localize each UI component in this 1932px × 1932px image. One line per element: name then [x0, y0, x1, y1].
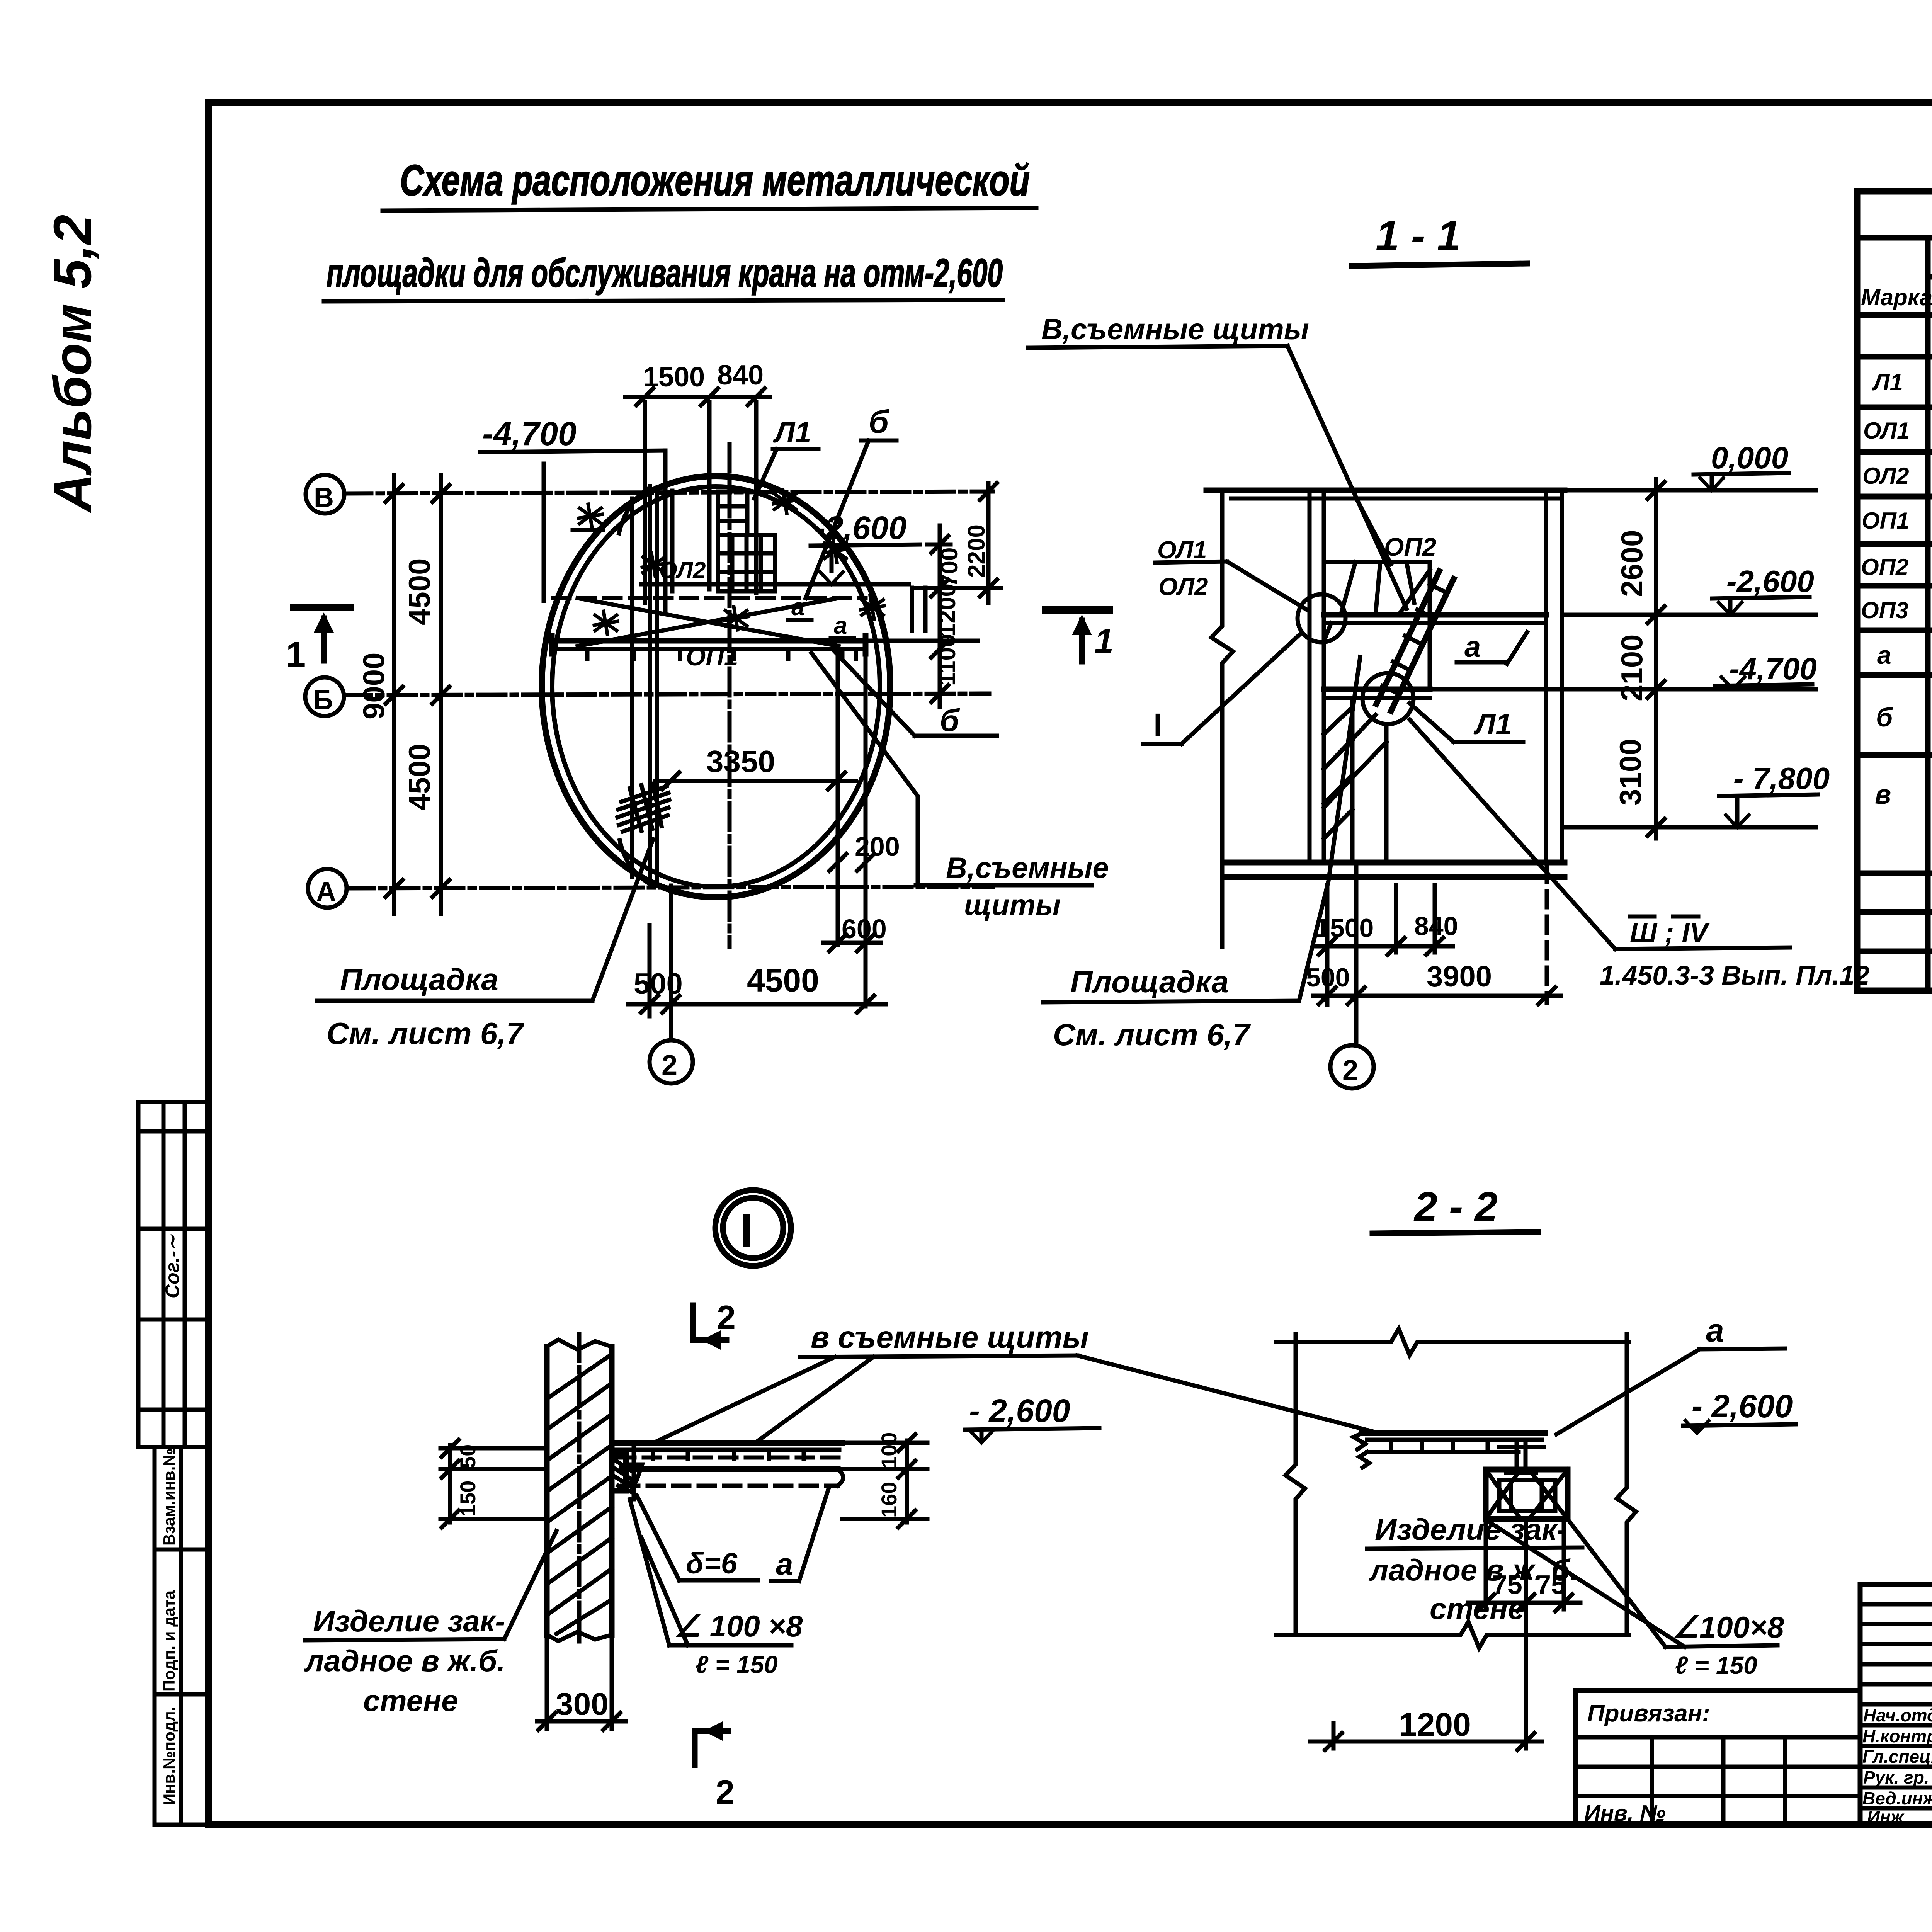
left dims 50/150	[440, 1445, 547, 1522]
platform right box	[910, 588, 914, 631]
svg-text:1500: 1500	[1315, 913, 1374, 943]
bottom slab	[1226, 860, 1565, 866]
title underline 2	[324, 300, 1003, 301]
inner wall vertical (plan)	[630, 498, 634, 877]
header bottom line	[1857, 312, 1932, 318]
svg-text:-2,600: -2,600	[1726, 564, 1814, 599]
svg-text:Подп. и дата: Подп. и дата	[160, 1590, 178, 1692]
svg-text:2: 2	[1342, 1054, 1358, 1086]
svg-text:Нач.отд: Нач.отд	[1863, 1705, 1932, 1725]
svg-text:а: а	[1464, 631, 1481, 663]
axis line Б	[344, 694, 989, 695]
deck bolts (2-2)	[1391, 1440, 1488, 1448]
svg-text:ОП3: ОП3	[1861, 597, 1908, 623]
svg-text:В,съемные щиты: В,съемные щиты	[1041, 313, 1309, 346]
svg-text:ладное в ж.б.: ладное в ж.б.	[304, 1644, 505, 1678]
hatch blob lower	[617, 784, 669, 832]
svg-text:ℓ = 150: ℓ = 150	[696, 1651, 778, 1679]
signature table	[1860, 1584, 1932, 1825]
axis circle А	[308, 869, 347, 908]
dim 3350	[655, 779, 856, 783]
svg-text:Инж: Инж	[1867, 1807, 1905, 1827]
svg-text:в: в	[1875, 779, 1891, 810]
svg-text:См. лист 6,7: См. лист 6,7	[327, 1016, 525, 1051]
axis line В	[344, 492, 993, 493]
svg-text:ℓ = 150: ℓ = 150	[1675, 1651, 1757, 1679]
svg-text:А: А	[316, 876, 336, 907]
platform main beam ОП1 double line	[552, 638, 866, 644]
svg-text:стене: стене	[1430, 1592, 1525, 1626]
ladder Л1 diagonal	[1376, 571, 1439, 704]
svg-text:2600: 2600	[1615, 530, 1649, 597]
section mark 1 (between plan and sec11)	[1046, 606, 1109, 614]
svg-text:Н.контр.: Н.контр.	[1862, 1726, 1932, 1746]
section mark 1 left	[294, 604, 350, 611]
bolts under beam	[587, 649, 856, 659]
svg-text:2100: 2100	[1615, 634, 1649, 701]
svg-text:- 7,800: - 7,800	[1733, 761, 1830, 796]
svg-text:Л1: Л1	[1473, 708, 1512, 741]
detail I badge double circle	[715, 1190, 791, 1266]
svg-text:∠100×8: ∠100×8	[1672, 1610, 1784, 1644]
svg-text:1: 1	[1094, 622, 1114, 661]
svg-text:а: а	[1706, 1312, 1724, 1349]
axis circle 2 (plan)	[650, 1040, 693, 1083]
svg-text:4500: 4500	[402, 743, 436, 811]
svg-text:Площадка: Площадка	[340, 962, 498, 997]
table title underline	[1857, 235, 1932, 241]
element list table outer	[1857, 191, 1932, 991]
svg-text:- 2,600: - 2,600	[1692, 1388, 1793, 1424]
platform deck (2-2)	[1362, 1430, 1545, 1436]
embedded block (2-2)	[1486, 1469, 1568, 1519]
svg-text:3900: 3900	[1427, 960, 1492, 993]
extension from platform to right dims	[912, 586, 1001, 590]
svg-text:-4,700: -4,700	[482, 415, 577, 452]
svg-text:ОЛ1: ОЛ1	[1157, 536, 1207, 564]
weld marks on platform	[594, 611, 617, 634]
wall (detail I)	[544, 1347, 550, 1635]
beam end caps	[549, 636, 555, 654]
svg-text:2: 2	[716, 1773, 735, 1811]
svg-text:∠ 100 ×8: ∠ 100 ×8	[674, 1609, 803, 1643]
svg-text:I: I	[1153, 707, 1162, 743]
weld mark double arrow upper left	[579, 504, 602, 527]
svg-text:в съемные щиты: в съемные щиты	[811, 1320, 1089, 1354]
top dim 1500/840	[625, 395, 770, 399]
svg-text:ОЛ1: ОЛ1	[1863, 418, 1910, 444]
platform top dashed edge	[641, 582, 909, 587]
svg-text:ОЛ2: ОЛ2	[1862, 463, 1909, 489]
right extension lines	[1430, 490, 1816, 827]
svg-text:Марка: Марка	[1861, 284, 1932, 310]
axis circle В	[306, 475, 344, 514]
svg-text:Сог.-∼: Сог.-∼	[162, 1234, 183, 1298]
svg-text:1 - 1: 1 - 1	[1376, 212, 1461, 260]
dim line 9000 vertical	[392, 475, 396, 914]
svg-text:Альбом 5,2: Альбом 5,2	[43, 215, 102, 513]
svg-text:0,000: 0,000	[1711, 440, 1788, 475]
svg-text:3350: 3350	[706, 744, 775, 779]
svg-text:1500: 1500	[643, 362, 705, 393]
svg-text:2 - 2: 2 - 2	[1413, 1183, 1498, 1230]
platform deck (detail I)	[612, 1440, 842, 1446]
left wall	[1308, 490, 1312, 862]
detail circle at wall joint	[1298, 594, 1345, 642]
svg-text:4500: 4500	[747, 962, 819, 998]
svg-text:δ=6: δ=6	[686, 1547, 738, 1580]
axis line А	[347, 887, 993, 888]
svg-text:200: 200	[855, 832, 900, 862]
leader to platform	[1287, 346, 1406, 609]
dim 200	[836, 653, 840, 945]
left margin upper stamp strip	[138, 1102, 209, 1447]
svg-text:б: б	[1876, 702, 1893, 732]
svg-text:Изделие зак-: Изделие зак-	[1375, 1512, 1567, 1546]
svg-text:500: 500	[1306, 963, 1350, 992]
svg-text:-2,600: -2,600	[815, 510, 906, 546]
svg-text:160: 160	[877, 1482, 901, 1518]
dims 75/75	[1468, 1522, 1580, 1609]
svg-text:100: 100	[877, 1432, 901, 1468]
right dim chain 2600/2100/3100	[1654, 479, 1658, 838]
right dims 100/160	[842, 1440, 927, 1522]
svg-text:площадки для обслуживания к: площадки для обслуживания крана на отм-2…	[327, 251, 1003, 296]
svg-text:а: а	[834, 612, 847, 639]
left boundary line (2-2)	[1286, 1334, 1305, 1635]
leader from blob to Площадка note	[592, 839, 653, 1001]
right wall	[1544, 490, 1548, 862]
top line with break	[1276, 1329, 1629, 1355]
tank wall inner ellipse	[552, 486, 880, 887]
svg-text:2: 2	[717, 1298, 736, 1337]
privyazan box	[1576, 1690, 1860, 1825]
svg-text:Привязан:: Привязан:	[1587, 1700, 1710, 1727]
right boundary line (2-2)	[1617, 1334, 1636, 1635]
svg-text:Инв. №: Инв. №	[1584, 1801, 1665, 1826]
svg-text:ОП2: ОП2	[1384, 532, 1437, 561]
ОП2 fan above platform	[1324, 562, 1430, 615]
table heavy verticals	[1928, 238, 1932, 991]
right inner dim chain 700/1200/1100	[938, 526, 942, 707]
platform -2.600 in section	[1324, 612, 1546, 618]
svg-text:ладное в ж. б.: ладное в ж. б.	[1368, 1553, 1578, 1587]
svg-text:а: а	[1877, 641, 1891, 669]
bottom dims 500/3900 (sec)	[1313, 994, 1561, 998]
svg-text:500: 500	[634, 968, 683, 1000]
data row lines	[1857, 357, 1932, 951]
svg-text:Рук. гр.: Рук. гр.	[1863, 1767, 1929, 1787]
svg-text:ОЛ2: ОЛ2	[1158, 573, 1208, 600]
header sub line	[1928, 274, 1932, 280]
svg-text:Схема расположения металлич: Схема расположения металлической	[400, 156, 1030, 204]
svg-text:50: 50	[456, 1444, 480, 1468]
svg-text:б: б	[940, 703, 960, 738]
svg-text:1: 1	[286, 635, 306, 674]
svg-text:В: В	[314, 482, 334, 513]
svg-text:Л1: Л1	[773, 416, 811, 449]
tank wall outer ellipse	[542, 476, 890, 897]
bottom line with break	[1276, 1622, 1629, 1648]
svg-text:б: б	[869, 403, 889, 440]
svg-text:щиты: щиты	[964, 889, 1061, 922]
angle bracket at wall	[612, 1455, 626, 1491]
extension lines from top dims	[643, 402, 647, 603]
svg-text:Инв.№подл.: Инв.№подл.	[160, 1707, 178, 1805]
svg-text:Гл.спец.: Гл.спец.	[1862, 1747, 1932, 1767]
svg-text:ОП2: ОП2	[1861, 554, 1908, 580]
svg-text:В,съемные: В,съемные	[946, 852, 1109, 884]
platform cross brace X	[578, 598, 838, 646]
svg-text:1200: 1200	[1399, 1706, 1471, 1743]
svg-text:стене: стене	[363, 1684, 458, 1718]
svg-text:2: 2	[662, 1049, 677, 1081]
svg-text:Л1: Л1	[1872, 369, 1903, 396]
svg-text:Вед.инж: Вед.инж	[1862, 1788, 1932, 1808]
wall second vertical	[670, 491, 675, 591]
svg-text:а: а	[776, 1547, 793, 1581]
plan centre axis 2 line	[728, 444, 732, 947]
title underline 1	[383, 208, 1036, 211]
bolt dash line	[632, 1442, 636, 1499]
axis circle 2 (sec)	[1330, 1045, 1374, 1088]
svg-text:1200: 1200	[934, 583, 961, 637]
wall centre dash line	[577, 1334, 582, 1647]
extension line near circle left	[542, 464, 546, 601]
svg-text:2200: 2200	[963, 524, 990, 578]
braces below platform	[1324, 623, 1386, 862]
svg-text:700: 700	[936, 548, 963, 587]
top slab	[1206, 488, 1565, 493]
platform dashed line 2	[553, 596, 866, 600]
svg-text:Взам.инв.№: Взам.инв.№	[160, 1448, 178, 1546]
svg-text:4500: 4500	[402, 558, 436, 625]
right outer dim 2200	[986, 483, 991, 603]
svg-text:300: 300	[556, 1687, 609, 1722]
svg-text:ОП1: ОП1	[686, 642, 738, 671]
beam under deck	[622, 1466, 838, 1472]
wall hatching	[547, 1354, 612, 1634]
lower platform -4.700	[1324, 687, 1430, 692]
sheet frame border	[209, 102, 1932, 1825]
svg-text:I: I	[740, 1204, 753, 1258]
left margin lower stamp strip	[155, 1447, 209, 1825]
svg-text:3100: 3100	[1613, 738, 1647, 806]
svg-text:Площадка: Площадка	[1070, 964, 1229, 999]
svg-text:а: а	[791, 594, 804, 621]
svg-text:Ш ; IV: Ш ; IV	[1630, 917, 1710, 948]
svg-text:150: 150	[456, 1481, 480, 1517]
secondary beam line (2-2)	[1367, 1450, 1519, 1454]
detail circle at ladder foot	[1362, 673, 1413, 724]
svg-text:1.450.3-3 Вып. Пл.12: 1.450.3-3 Вып. Пл.12	[1600, 960, 1869, 990]
svg-text:- 2,600: - 2,600	[969, 1393, 1070, 1429]
bottom dims 1500/840 (sec)	[1313, 944, 1453, 949]
deck bolts	[653, 1450, 804, 1459]
svg-text:ОП1: ОП1	[1862, 508, 1909, 534]
left extension with break	[1211, 490, 1233, 947]
svg-text:9000: 9000	[357, 652, 391, 719]
dim line 4500/4500 vertical	[439, 475, 443, 914]
svg-text:Изделие зак-: Изделие зак-	[313, 1604, 505, 1638]
svg-text:См. лист 6,7: См. лист 6,7	[1053, 1017, 1251, 1052]
svg-text:Б: Б	[313, 685, 333, 716]
axis circle Б	[305, 677, 344, 716]
ladder grid in plan	[718, 492, 775, 591]
I-beam hanger	[1499, 1440, 1544, 1473]
bottom dim 500/4500	[628, 1002, 886, 1007]
svg-text:600: 600	[842, 914, 887, 944]
svg-text:840: 840	[717, 360, 764, 391]
